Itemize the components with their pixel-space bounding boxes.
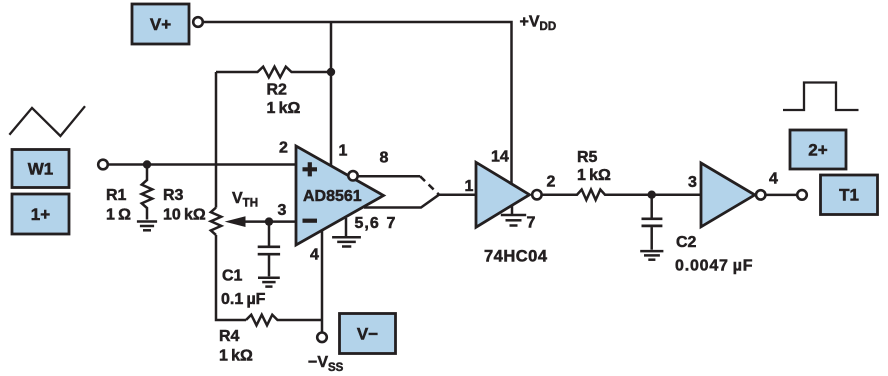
svg-text:74HC04: 74HC04 [484, 248, 548, 266]
svg-text:VTH: VTH [232, 190, 258, 210]
svg-text:3: 3 [278, 202, 287, 219]
resistor R2 1 kOhm [216, 67, 331, 78]
resistor R5 1 kOhm [542, 190, 701, 200]
wire top rail from V+ terminal to +VDD corner and down to 74HC04 pin 14 [204, 22, 512, 184]
wire AD8561 pin 4 down to -VSS terminal [321, 231, 324, 332]
wire left vertical from R2 down to potentiometer top [215, 72, 218, 208]
capacitor C1 0.1 uF [258, 222, 280, 277]
ground below C1 [258, 278, 280, 287]
wire left vertical from potentiometer bottom to bottom rail corner [216, 235, 246, 320]
svg-text:R4: R4 [219, 328, 240, 345]
svg-text:0.1 µF: 0.1 µF [221, 291, 266, 308]
svg-text:V−: V− [357, 325, 378, 344]
potentiometer wiper arrow VTH [245, 220, 296, 223]
output bubble of 74HC04 inverter [532, 190, 541, 199]
wire pin 7 output [364, 195, 439, 208]
svg-text:7: 7 [387, 215, 396, 232]
svg-text:R5: R5 [577, 149, 598, 166]
svg-text:1+: 1+ [31, 205, 50, 224]
resistor R4 1 kOhm [246, 315, 322, 326]
ground below AD8561 [332, 237, 361, 246]
wire input row from W1 terminal to AD8561 pin 2 [109, 163, 297, 166]
svg-text:4: 4 [769, 171, 778, 188]
svg-text:1: 1 [339, 143, 348, 160]
svg-text:V+: V+ [150, 15, 171, 34]
resistor R1 1 Ohm vertical [142, 165, 153, 220]
svg-text:R3: R3 [163, 187, 184, 204]
terminal circle T1 output [797, 190, 807, 200]
op-amp comparator U1 AD8561 triangle [296, 146, 384, 245]
svg-text:7: 7 [527, 215, 536, 232]
svg-text:14: 14 [491, 149, 509, 166]
ground stub 74HC04 pin 7 [511, 206, 514, 215]
svg-text:R1: R1 [106, 187, 127, 204]
terminal circle W1 input [98, 160, 108, 170]
terminal circle V+ [193, 17, 203, 27]
svg-text:AD8561: AD8561 [303, 188, 362, 205]
ground below R1 [137, 222, 157, 231]
svg-text:2: 2 [547, 174, 556, 191]
output bubble of second inverter [756, 190, 765, 199]
svg-text:2+: 2+ [808, 141, 827, 160]
box T1 [821, 175, 878, 215]
triangle wave symbol [9, 106, 85, 136]
svg-text:0.0047 µF: 0.0047 µF [675, 258, 753, 275]
svg-text:W1: W1 [28, 160, 54, 179]
svg-text:C1: C1 [222, 268, 243, 285]
node junction dot R5/C2 [648, 191, 656, 199]
ground below 74HC04 [501, 215, 526, 226]
ground stub AD8561 pins 5,6 [345, 218, 348, 236]
ground below C2 [640, 251, 663, 260]
svg-text:1 kΩ: 1 kΩ [267, 100, 301, 117]
box V+ [132, 4, 189, 44]
node junction dot input/R1 [143, 160, 151, 168]
label minus input sign (drawn) [303, 219, 318, 223]
svg-text:T1: T1 [839, 186, 859, 205]
inverter U2B 74HC04 triangle [701, 163, 755, 227]
svg-text:3: 3 [688, 174, 697, 191]
wire dashed merge pin 8 [420, 176, 439, 195]
square wave symbol [783, 83, 859, 111]
wire merged output to 74HC04 pin 1 [439, 193, 476, 196]
svg-text:8: 8 [380, 150, 389, 167]
svg-text:1 Ω: 1 Ω [106, 207, 131, 224]
svg-text:5,6: 5,6 [355, 215, 380, 232]
node junction dot wiper/C1/pin3 [265, 217, 273, 225]
box 1+ [12, 194, 69, 234]
svg-text:C2: C2 [676, 234, 697, 251]
svg-text:1 kΩ: 1 kΩ [577, 167, 611, 184]
svg-text:1: 1 [465, 178, 474, 195]
svg-text:R2: R2 [267, 82, 288, 99]
svg-text:+VDD: +VDD [520, 14, 557, 34]
wire inverter 2 output to T1 terminal [766, 194, 797, 197]
potentiometer R3 10 kOhm zigzag [211, 208, 221, 235]
label plus input sign (drawn) [303, 162, 318, 176]
node junction dot R2/pin1 [327, 68, 335, 76]
capacitor C2 0.0047 uF [642, 195, 663, 250]
wire pin 8 output [358, 175, 420, 178]
box W1 [12, 150, 69, 188]
inverter U2A 74HC04 triangle [476, 162, 530, 227]
svg-text:1 kΩ: 1 kΩ [219, 348, 253, 365]
wire pin 1 feed from top rail down to AD8561 top edge [330, 22, 333, 167]
box 2+ [790, 130, 846, 169]
output bubble pin 8 of AD8561 [348, 171, 357, 180]
svg-text:2: 2 [279, 140, 288, 157]
box V- [340, 314, 396, 354]
svg-text:10 kΩ: 10 kΩ [163, 207, 206, 224]
svg-text:4: 4 [310, 247, 319, 264]
svg-text:−VSS: −VSS [308, 354, 344, 374]
terminal circle V- [317, 333, 327, 343]
